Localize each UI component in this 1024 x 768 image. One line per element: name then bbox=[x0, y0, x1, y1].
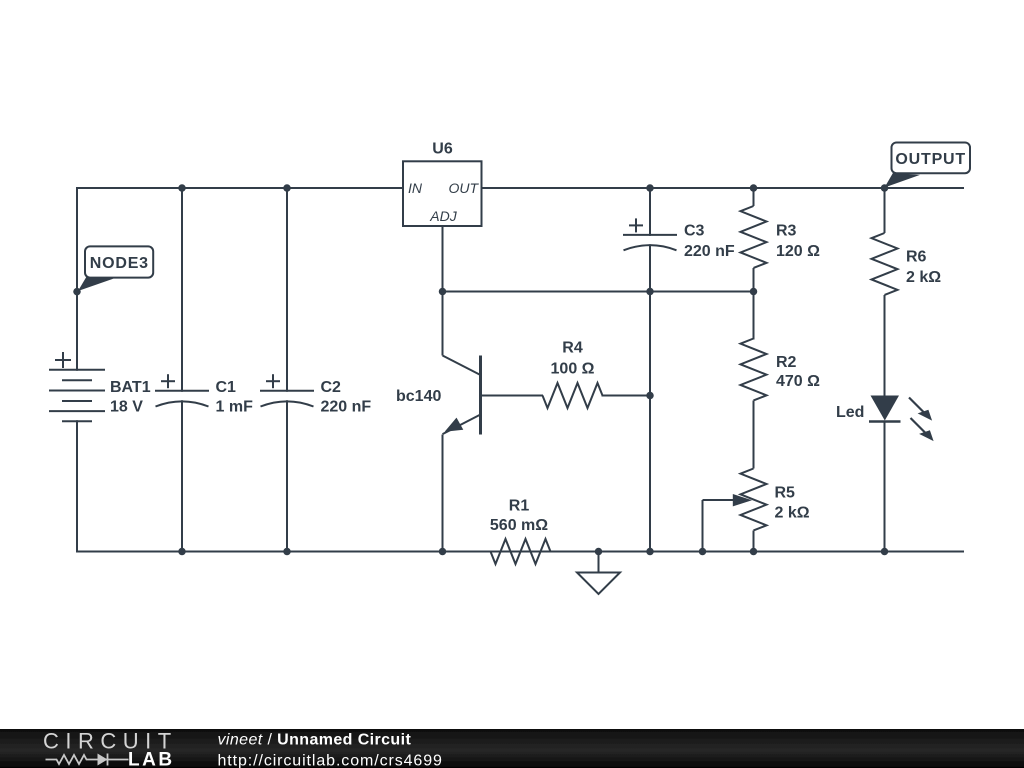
label R1 value bbox=[490, 497, 548, 534]
label R5 value bbox=[775, 485, 810, 522]
potentiometer R5 wiper arrow bbox=[733, 494, 752, 506]
node dot rail R5 bbox=[750, 548, 758, 556]
svg-text:C3: C3 bbox=[684, 223, 705, 240]
svg-text:bc140: bc140 bbox=[396, 388, 441, 405]
resistor R4 bbox=[543, 383, 603, 408]
wire C1 bottom bbox=[181, 401, 183, 551]
svg-text:470 Ω: 470 Ω bbox=[776, 373, 820, 390]
logo resistor diode glyph bbox=[46, 754, 129, 766]
svg-text:IN: IN bbox=[408, 180, 423, 196]
node dot top C2 bbox=[283, 184, 291, 192]
node dot NODE3 bbox=[73, 288, 81, 296]
wire C3 bottom bbox=[649, 245, 651, 551]
node dot rail wiper bbox=[699, 548, 707, 556]
svg-text:R3: R3 bbox=[776, 223, 797, 240]
resistor R6 bbox=[872, 188, 898, 396]
label BAT1 value bbox=[110, 379, 151, 416]
node OUTPUT flag bbox=[885, 143, 971, 188]
node dot top C1 bbox=[178, 184, 186, 192]
svg-text:vineet / Unnamed Circuit: vineet / Unnamed Circuit bbox=[218, 732, 412, 749]
capacitor C2 bbox=[260, 374, 314, 406]
label C2 value bbox=[321, 379, 372, 416]
wire bottom rail bbox=[77, 551, 963, 553]
node NODE3 flag bbox=[78, 246, 153, 291]
potentiometer R5 bbox=[703, 469, 767, 552]
node dot mid ADJ bbox=[439, 288, 447, 296]
svg-text:120 Ω: 120 Ω bbox=[776, 243, 820, 260]
transistor Q1 bc140 bbox=[443, 292, 544, 552]
node dot rail Q1 bbox=[439, 548, 447, 556]
wire R4 right lead bbox=[603, 395, 651, 397]
transistor emitter arrow bbox=[445, 418, 464, 432]
node dot top R3 bbox=[750, 184, 758, 192]
svg-text:R1: R1 bbox=[509, 497, 530, 514]
capacitor C1 bbox=[155, 374, 209, 406]
node dot rail LED bbox=[881, 548, 889, 556]
svg-text:100 Ω: 100 Ω bbox=[551, 361, 595, 378]
label R2 value bbox=[776, 354, 820, 390]
label C3 value bbox=[684, 223, 735, 261]
svg-text:ADJ: ADJ bbox=[429, 208, 457, 224]
svg-text:R5: R5 bbox=[775, 485, 796, 502]
wire C2 bottom bbox=[286, 401, 288, 551]
node dot mid C3 bbox=[646, 288, 654, 296]
resistor R3 bbox=[741, 188, 767, 291]
svg-text:220 nF: 220 nF bbox=[684, 243, 735, 260]
LED D1 bbox=[869, 396, 901, 552]
svg-text:Led: Led bbox=[836, 404, 864, 421]
svg-text:OUTPUT: OUTPUT bbox=[895, 151, 966, 168]
svg-text:1 mF: 1 mF bbox=[216, 399, 254, 416]
svg-text:http://circuitlab.com/crs4699: http://circuitlab.com/crs4699 bbox=[218, 753, 443, 768]
resistor R1 bbox=[491, 539, 551, 564]
svg-text:R4: R4 bbox=[562, 339, 583, 356]
wire top rail right bbox=[482, 187, 964, 189]
LED light arrows bbox=[909, 398, 934, 442]
svg-text:NODE3: NODE3 bbox=[90, 255, 149, 272]
node dot top C3 bbox=[646, 184, 654, 192]
label R3 value bbox=[776, 223, 820, 261]
svg-text:OUT: OUT bbox=[448, 180, 479, 196]
node dot mid R3R2 bbox=[750, 288, 758, 296]
svg-text:LAB: LAB bbox=[128, 750, 175, 768]
svg-text:R6: R6 bbox=[906, 248, 927, 265]
label R4 value bbox=[551, 339, 595, 377]
svg-text:2 kΩ: 2 kΩ bbox=[906, 269, 941, 286]
node dot rail C2 bbox=[283, 548, 291, 556]
svg-text:C2: C2 bbox=[321, 379, 342, 396]
wire C3 top bbox=[649, 188, 651, 235]
ground bbox=[577, 552, 620, 595]
wire U6 ADJ down bbox=[442, 226, 444, 292]
op-amp U6 regulator box bbox=[403, 141, 482, 227]
wire battery bottom to rail bbox=[76, 421, 78, 551]
wire mid horizontal bbox=[443, 291, 754, 293]
battery BAT1 bbox=[50, 353, 104, 421]
wire top rail left bbox=[77, 188, 403, 370]
footer bar bbox=[0, 729, 1024, 768]
label R6 value bbox=[906, 248, 941, 286]
node dot OUTPUT bbox=[881, 184, 889, 192]
logo diode triangle bbox=[98, 754, 108, 766]
node dot rail ground bbox=[595, 548, 603, 556]
capacitor C3 bbox=[623, 218, 677, 250]
svg-text:18 V: 18 V bbox=[110, 399, 143, 416]
svg-text:R2: R2 bbox=[776, 354, 797, 371]
node dot rail C1 bbox=[178, 548, 186, 556]
svg-text:BAT1: BAT1 bbox=[110, 379, 151, 396]
resistor R2 bbox=[741, 291, 767, 469]
node dot rail C3 bbox=[646, 548, 654, 556]
svg-text:U6: U6 bbox=[432, 141, 453, 158]
wire C2 top bbox=[286, 188, 288, 391]
node dot R4 C3 bbox=[646, 392, 654, 400]
svg-text:560 mΩ: 560 mΩ bbox=[490, 517, 548, 534]
svg-text:C1: C1 bbox=[216, 379, 237, 396]
wire C1 top bbox=[181, 188, 183, 391]
label C1 value bbox=[216, 379, 254, 416]
svg-text:220 nF: 220 nF bbox=[321, 399, 372, 416]
svg-text:2 kΩ: 2 kΩ bbox=[775, 505, 810, 522]
